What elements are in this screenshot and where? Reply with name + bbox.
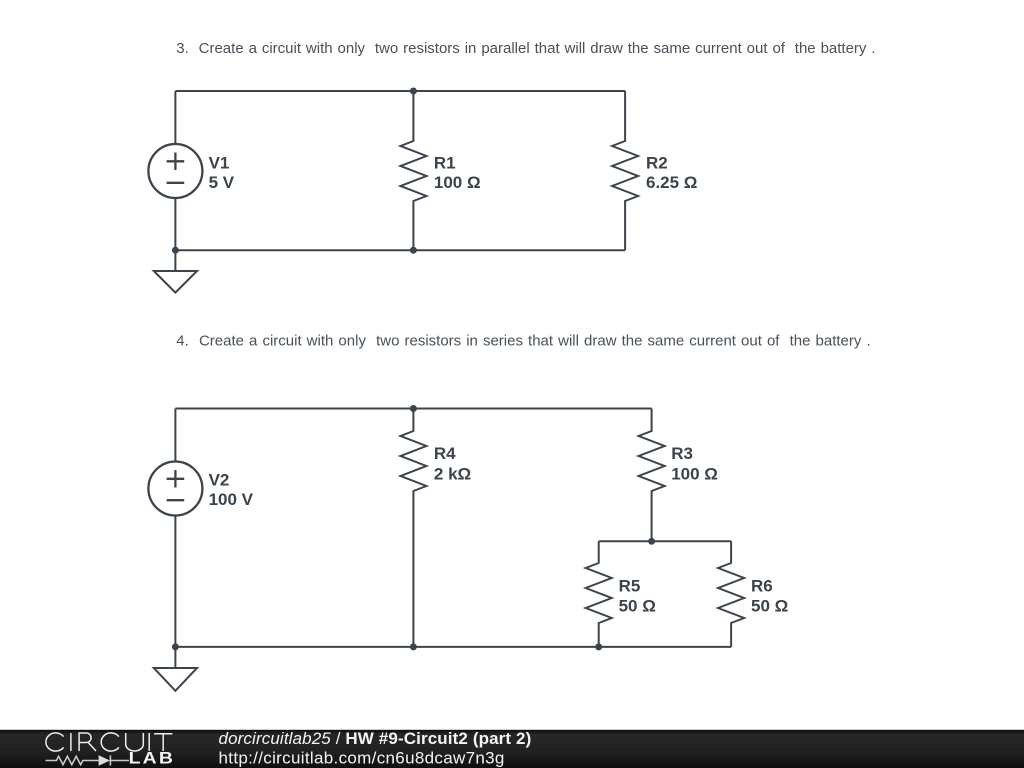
svg-text:R5: R5: [619, 576, 641, 595]
svg-text:5 V: 5 V: [209, 173, 235, 192]
svg-text:dorcircuitlab25 / HW #9-Circui: dorcircuitlab25 / HW #9-Circuit2 (part 2…: [219, 729, 532, 748]
svg-text:V1: V1: [209, 154, 230, 173]
svg-text:2 kΩ: 2 kΩ: [434, 464, 471, 483]
svg-text:3. Create a circuit with only: 3. Create a circuit with only two resist…: [176, 40, 875, 57]
svg-text:LAB: LAB: [129, 749, 176, 767]
svg-text:R1: R1: [434, 154, 456, 173]
svg-text:6.25 Ω: 6.25 Ω: [646, 173, 697, 192]
svg-text:50 Ω: 50 Ω: [751, 597, 788, 616]
svg-text:http://circuitlab.com/cn6u8dca: http://circuitlab.com/cn6u8dcaw7n3g: [219, 748, 505, 767]
svg-text:4. Create a circuit with only: 4. Create a circuit with only two resist…: [176, 333, 870, 350]
svg-text:R2: R2: [646, 154, 668, 173]
svg-text:100 Ω: 100 Ω: [434, 173, 481, 192]
svg-text:100 Ω: 100 Ω: [671, 464, 718, 483]
svg-text:V2: V2: [209, 471, 230, 490]
svg-text:R3: R3: [671, 444, 693, 463]
svg-text:R4: R4: [434, 444, 456, 463]
svg-text:R6: R6: [751, 576, 773, 595]
svg-text:50 Ω: 50 Ω: [619, 597, 656, 616]
svg-text:100 V: 100 V: [209, 490, 254, 509]
